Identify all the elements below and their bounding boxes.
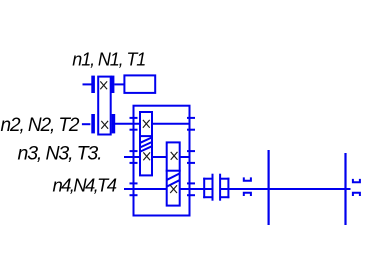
pulley P1 left flange [92,77,94,92]
coupling right inner bar [219,174,221,201]
drum line 1 [268,150,270,225]
pulley P2 right flange [113,115,115,132]
bearing dash right wall shaft4 bottom [187,194,195,196]
fixed-joint cross X4 (gear on shaft 3 left) [143,152,150,160]
motor M rectangle [124,75,155,93]
bearing dash left wall shaft2 top [130,117,138,119]
bearing B2 upper shell [353,179,360,182]
gearbox housing [134,106,190,216]
pulley P1 right flange [112,77,114,92]
coupling left bottom stub [203,196,213,198]
bearing B1 upper shell [244,177,251,180]
bearing dash left wall shaft4 top [130,182,138,184]
fixed-joint cross X5 (gear on shaft 3 right) [171,152,178,160]
coupling right top stub [219,178,229,180]
fixed-joint cross X2 (pulley 2) [101,121,108,129]
svg-text:n1, N1, T1: n1, N1, T1 [72,50,146,70]
belt (vertical belt loop rectangle) [98,77,111,135]
shaft 4 output (conveyor shaft) [220,188,350,190]
bearing dash right wall shaft2 bottom [187,129,195,131]
bearing dash left wall shaft4 bottom [130,194,138,196]
fixed-joint cross X6 (gear on shaft 4) [170,185,177,193]
hatch stroke 4 [167,174,180,180]
bearing dash right wall shaft3 top [187,150,195,152]
bearing dash right wall shaft4 top [187,182,195,184]
bearing B1 lower shell [244,193,251,196]
shaft 2 (input shaft of gearbox) [114,123,140,125]
bearing dash left wall shaft2 bottom [130,129,138,131]
hatch band top line (left column) [139,135,153,137]
shaft 4 stub left [124,188,167,190]
gear column Z1-Z2 (shaft2-shaft3) [140,112,152,175]
hatch stroke 5 [167,180,180,186]
bearing dash left wall shaft3 bottom [130,162,138,164]
label leader dash to shaft 2 [82,123,91,125]
hatch band top line (right column) [166,170,181,172]
wire shaft 2 inside gearbox [152,123,189,125]
shaft 3 between columns [152,156,166,158]
hatch stroke 1 [140,137,152,142]
shaft 3 to right wall [180,156,190,158]
bearing dash right wall shaft3 bottom [187,162,195,164]
coupling left top stub [203,178,213,180]
hatch stroke 3 [140,146,152,151]
bearing dash right wall shaft2 top [187,117,195,119]
coupling left inner bar [212,174,214,201]
svg-text:n2, N2, T2: n2, N2, T2 [1,115,80,136]
fixed-joint cross X3 (gear on shaft 2) [143,120,150,128]
coupling right outer flange [227,178,229,199]
hatch stroke 2 [140,142,152,147]
shaft 1 right segment to motor [114,83,124,85]
shaft 3 stub left [124,156,140,158]
bearing B2 lower shell [353,193,360,196]
drum line 2 [344,153,346,225]
gear column Z3-Z4 (shaft3-shaft4) [167,142,180,205]
shaft 4 to coupling [180,188,213,190]
coupling left outer flange [203,178,205,199]
fixed-joint cross X1 (pulley 1) [100,81,107,89]
pulley P2 left flange [92,115,94,132]
shaft 1 left segment [83,83,93,85]
svg-text:n3, N3, T3.: n3, N3, T3. [18,142,103,164]
coupling right bottom stub [219,196,229,198]
svg-text:n4,N4,T4: n4,N4,T4 [53,175,118,196]
bearing dash left wall shaft3 top [130,150,138,152]
